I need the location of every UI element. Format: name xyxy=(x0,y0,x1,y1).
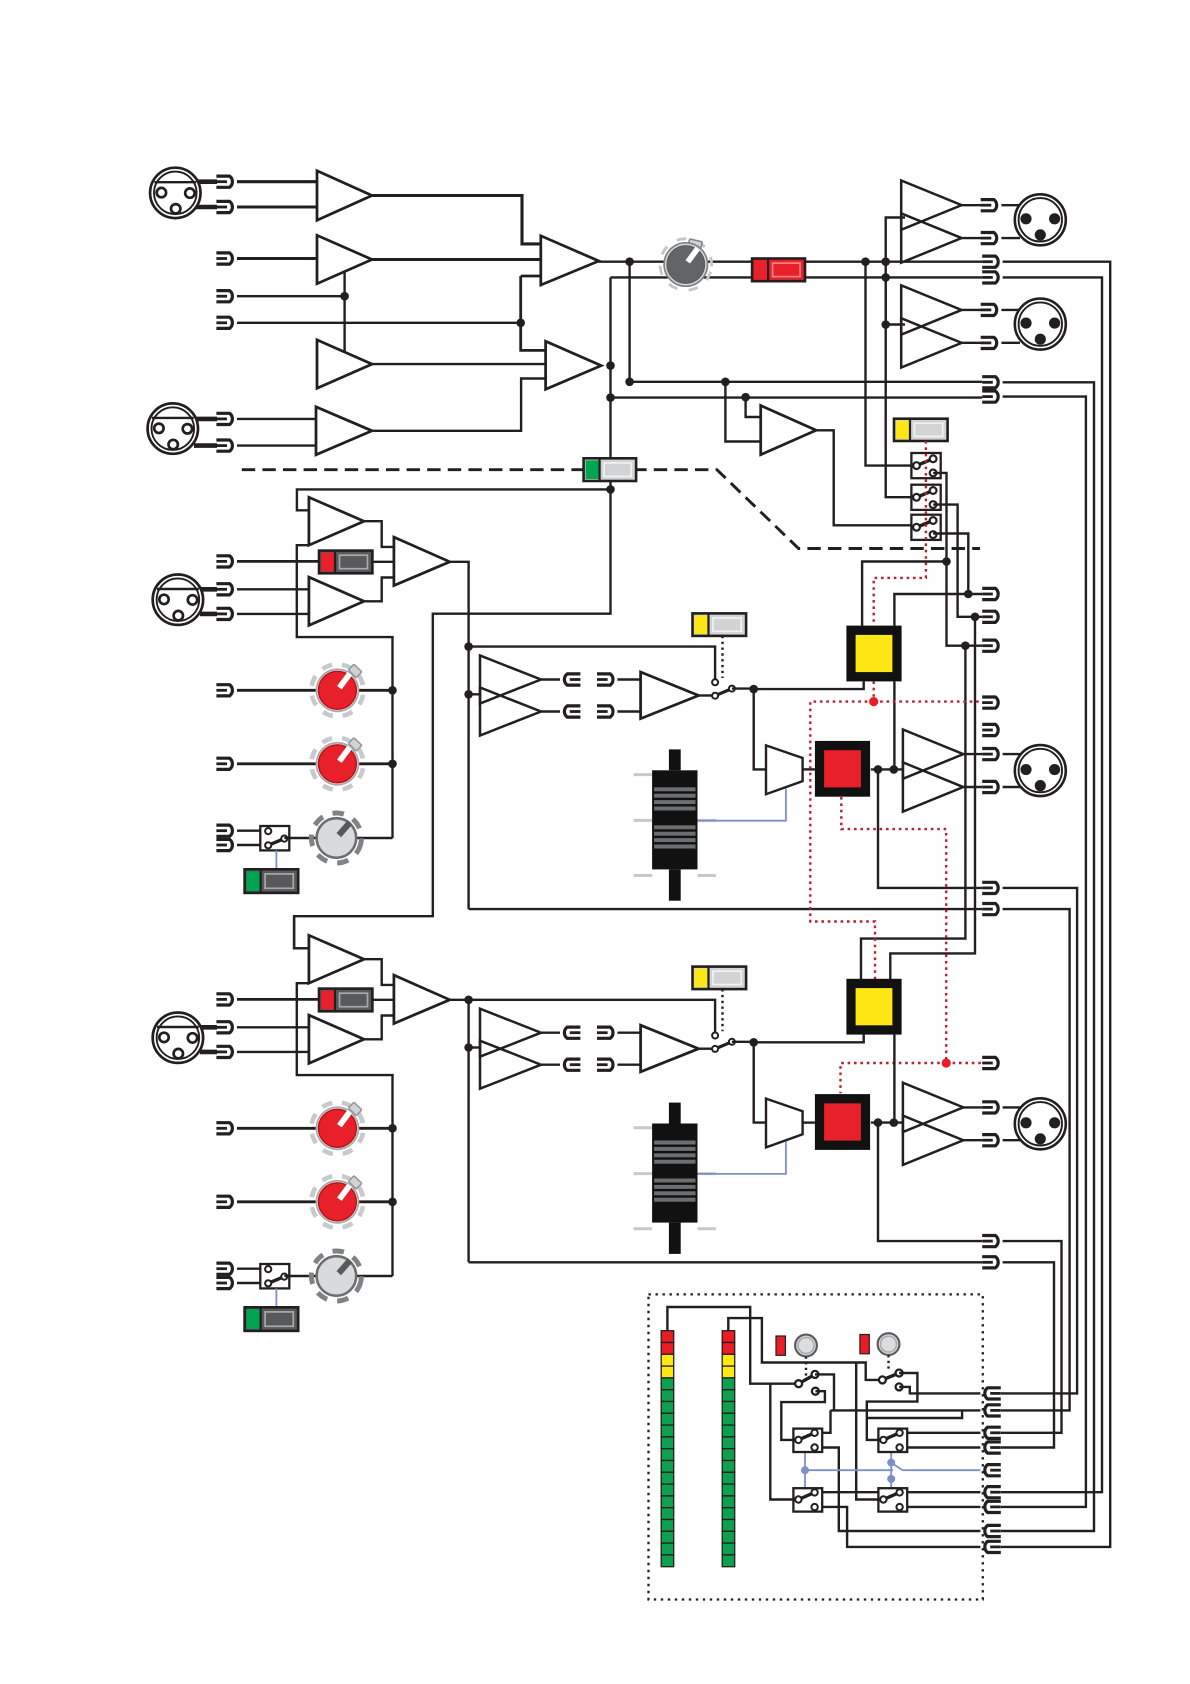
wire: sel B lower link xyxy=(899,1387,980,1394)
switch S12 xyxy=(793,1488,822,1511)
connector J12 main out L XLR (XLR male) xyxy=(1015,194,1066,245)
fader F1 channel fader xyxy=(634,749,716,900)
wire: master bus B xyxy=(611,276,983,278)
wire: pair2 to jacks xyxy=(962,310,981,343)
button S51 monitor assign xyxy=(846,626,901,682)
wire: main L to selector xyxy=(866,262,912,466)
op-amp pair U7 (balanced driver) xyxy=(901,181,961,263)
switch S3 monitor mode switch xyxy=(894,419,948,441)
connector jack J7 main out R jack xyxy=(982,272,998,283)
wire: sel A lower link xyxy=(781,1391,825,1440)
wire: jack to XLR pin2 xyxy=(1001,237,1020,239)
wire: ch2 head amp b out xyxy=(364,1016,394,1040)
op-amp U5 mix amp A xyxy=(541,236,599,285)
switch S6 select mono (selector) xyxy=(911,515,940,540)
wire: ch2 mic cold xyxy=(237,1051,309,1053)
potentiometer R22 level 2 xyxy=(307,1172,367,1232)
wire: ch1 return bot xyxy=(617,710,640,712)
connector jack J6 main out L jack xyxy=(982,256,998,267)
node n2 xyxy=(516,319,525,328)
node n2i4 xyxy=(874,1118,883,1127)
wire: ch1 sel in 2 xyxy=(237,844,268,846)
connector jack J82 send out jack xyxy=(982,1257,998,1268)
wire: ch2 send bot xyxy=(541,1063,560,1065)
wire: sel A upper link xyxy=(815,1374,834,1410)
node n10 xyxy=(625,378,634,387)
node n5 xyxy=(881,257,890,266)
potentiometer R11 level 1 xyxy=(307,660,367,720)
wire: meter feed A xyxy=(667,1307,795,1384)
wire: mono tap A xyxy=(725,382,760,442)
node n2k2 xyxy=(388,1198,397,1207)
wire: ch2 vca to mute xyxy=(803,1121,815,1123)
wire: ch1 fader vca link xyxy=(698,788,786,820)
wire: boxB lower out xyxy=(900,1446,981,1448)
wire: ch1 to vca xyxy=(754,689,766,769)
connector jack J1b xyxy=(216,201,232,212)
wire: ch2 head amp a out xyxy=(364,959,394,985)
wire: ch1 vca to mute xyxy=(803,768,815,770)
node blue b2 xyxy=(887,1459,895,1467)
wire: ch2 direct out xyxy=(878,1123,982,1242)
switch S41 (insert bypass) xyxy=(712,679,735,698)
op-amp U12b head amp - xyxy=(309,1015,364,1063)
wire: ch1 pair to jacks xyxy=(963,754,982,787)
wire: monitor bus down 1 xyxy=(861,646,965,981)
wire: ch1 direct trunk xyxy=(1001,888,1077,1394)
connector jack J31d xyxy=(216,839,232,850)
switch S12 pad switch xyxy=(319,989,372,1012)
connector jack J41a send jack 1 xyxy=(564,674,580,685)
node n15 xyxy=(961,641,970,650)
potentiometer R1 master level xyxy=(654,233,718,297)
connector jack J20 spare jack xyxy=(982,724,998,735)
wire: ch2 send out xyxy=(469,1261,983,1263)
node n7 xyxy=(606,361,615,370)
wire: input3 wire xyxy=(237,295,345,297)
connector jack J42c return jack 1 xyxy=(597,1027,613,1038)
wire: jack to XLR pin2 xyxy=(1001,342,1020,344)
node n2i3 xyxy=(749,1038,758,1047)
potentiometer R23 trim xyxy=(307,1246,366,1305)
wire: lamp link 1 xyxy=(805,1357,807,1378)
connector jack J22b xyxy=(216,1022,232,1033)
node n2i2 xyxy=(464,1043,473,1052)
wire: record bus A xyxy=(630,381,983,383)
wire: boxC upper row xyxy=(815,1491,981,1493)
node n13 xyxy=(881,320,890,329)
switch S31 phantom switch xyxy=(245,869,299,893)
wire: ch1 send out xyxy=(469,908,983,910)
connector jack J42b send jack 2 xyxy=(564,1059,580,1070)
wire: S5 out xyxy=(933,505,982,617)
switch S11 xyxy=(878,1429,907,1452)
wire: main R bus trunk to meter jack xyxy=(1001,277,1102,1492)
wire: ch1 post insert xyxy=(732,687,754,689)
connector jack J52a xyxy=(982,1102,998,1113)
wire: ch1 mic hot xyxy=(237,588,309,590)
node rn1 (link) xyxy=(869,697,878,706)
node n1 xyxy=(340,292,349,301)
wire: ch2 mic hot xyxy=(237,1026,309,1028)
node n1k2 xyxy=(388,760,397,769)
op-amp U41 return amp xyxy=(641,672,699,719)
connector jack J29 ctrl jack 2 xyxy=(982,1057,998,1068)
connector J62 monitor out XLR (XLR male) xyxy=(1015,1098,1066,1149)
wire: ch1 XLR stub hot xyxy=(200,587,217,592)
wire: ch1 return top xyxy=(617,678,640,680)
wire: ch1 preamp feed xyxy=(297,489,611,510)
wire: input4 wire xyxy=(237,322,521,324)
connector jack J19 ctrl jack 1 xyxy=(982,697,998,708)
connector J1 mic input A (XLR female) xyxy=(150,168,200,218)
wire: input1 hot to amp U1 xyxy=(237,180,317,183)
wire: U3 out to mix amp U6 xyxy=(372,363,546,365)
wire: ch1 send top xyxy=(541,678,560,680)
connector jack J11 xyxy=(981,233,997,244)
wire: U1 out to mix amp U5 xyxy=(372,196,541,244)
wire: ch1 bypass wire xyxy=(469,647,715,680)
wire: ch2 preamp feed xyxy=(294,916,309,948)
node n1i3 xyxy=(749,685,758,694)
wire: ch1 send trunk xyxy=(1001,909,1070,1410)
node n2i5 xyxy=(890,1118,899,1127)
wire: ch2 fader vca link xyxy=(698,1142,786,1174)
connector jack J47 xyxy=(985,1525,1001,1536)
connector jack J4 line input 4 xyxy=(216,317,232,328)
wire: ctrl link S61 xyxy=(721,636,723,678)
node n14 xyxy=(942,557,951,566)
op-amp U4 input amp 4 xyxy=(316,407,372,455)
node n1i4 xyxy=(874,765,883,774)
connector jack J31b xyxy=(216,758,232,769)
op-amp U11a head amp + xyxy=(309,497,364,545)
LED meter M1 left meter xyxy=(661,1331,674,1567)
connector jack J41b send jack 2 xyxy=(564,706,580,717)
wire: ch1 jacks to XLR xyxy=(1003,754,1021,787)
wire: line out R trunk to meter jack xyxy=(1001,397,1086,1507)
wire: ch2 sel in 2 xyxy=(237,1282,268,1284)
wire: sel jog link xyxy=(867,1410,962,1418)
wire: jack to XLR pin1 xyxy=(1001,309,1020,311)
wire: XLR2 stub hot xyxy=(194,417,217,422)
connector jack J5a xyxy=(216,413,232,424)
connector jack J17 monitor jack 2 xyxy=(982,611,998,622)
op-amp pair U62 monitor output pair (balanced driver) xyxy=(903,1083,963,1165)
connector jack J8 rec out L jack xyxy=(982,377,998,388)
wire: jack to XLR pin1 xyxy=(1001,204,1020,206)
wire: meter feed B xyxy=(728,1318,879,1380)
wire: mute ctrl net 1 xyxy=(841,797,983,1093)
wire: U2 sense link xyxy=(343,272,345,352)
wire: ch2 post insert xyxy=(732,1041,754,1043)
wire: ch1 mon assign out xyxy=(893,681,895,769)
wire: ch1 insert in xyxy=(469,693,480,695)
node blue b1 xyxy=(801,1466,809,1474)
connector jack J32c xyxy=(216,1263,232,1274)
connector jack J48 xyxy=(985,1541,1001,1552)
wire: ch2 mon assign out xyxy=(893,1035,895,1123)
wire: U9 out to selector xyxy=(816,430,911,525)
wire: ch1 send bot xyxy=(541,710,560,712)
connector jack J32a xyxy=(216,1123,232,1134)
wire: ch1 XLR stub cold xyxy=(200,612,217,617)
wire: boxD lower out xyxy=(900,1506,981,1508)
wire: phones bus xyxy=(805,1463,980,1471)
connector jack J40 meter jack 1 xyxy=(985,1388,1001,1399)
op-amp pair U61 monitor output pair (balanced driver) xyxy=(903,730,963,812)
vca amp U52 vca xyxy=(766,1099,803,1148)
node n1i2 xyxy=(464,690,473,699)
switch S9 meter select B xyxy=(879,1370,903,1391)
connector jack J1a xyxy=(216,176,232,187)
switch S4 select main L (selector) xyxy=(911,453,940,478)
connector jack J9 rec out R jack xyxy=(982,391,998,402)
connector J5 mic input B (XLR female) xyxy=(148,403,198,453)
wire: sel B upper link xyxy=(867,1373,918,1440)
switch S5 select main R (selector) xyxy=(911,485,940,510)
wire: boxD pole feed xyxy=(856,1363,883,1500)
connector jack J31c xyxy=(216,825,232,836)
node n11 xyxy=(721,378,730,387)
connector jack J44 phones jack xyxy=(985,1465,1001,1476)
wire: ch2 pair to jacks xyxy=(963,1107,982,1140)
wire: ch1 phantom link xyxy=(275,850,277,869)
indicator LED D1 xyxy=(776,1336,785,1355)
wire: ch2 line in wire xyxy=(237,998,320,1001)
wire: monitor feed to ch1 yellow button xyxy=(862,562,946,626)
wire: ch1 direct out xyxy=(878,769,982,888)
wire: record bus B xyxy=(611,396,983,398)
wire: ch1 insert bus xyxy=(450,562,469,909)
connector jack J41 xyxy=(985,1405,1001,1416)
connector jack J71 direct out jack xyxy=(982,882,998,893)
connector jack J32d xyxy=(216,1277,232,1288)
op-amp U11b head amp - xyxy=(309,577,364,625)
wire: ch2 return top xyxy=(617,1031,640,1033)
connector jack J21b xyxy=(216,584,232,595)
connector jack J5b xyxy=(216,440,232,451)
connector jack J41d return jack 2 xyxy=(597,706,613,717)
node n4 xyxy=(861,257,870,266)
wire: boxC pole feed xyxy=(770,1384,798,1500)
wire: monitor feed 2 to ch1 yellow button xyxy=(894,594,968,626)
wire: ch1 post mute xyxy=(871,768,903,770)
button S71 mute xyxy=(815,741,870,797)
switch S1 master switch xyxy=(752,259,805,282)
wire: ch2 XLR stub hot xyxy=(200,1025,217,1030)
connector jack J21a line in xyxy=(216,556,232,567)
wire: input5 hot to amp U4 xyxy=(237,418,316,420)
wire: ch2 bypass wire xyxy=(469,1000,715,1033)
connector jack J2 line input 2 xyxy=(216,253,232,264)
wire: ch2 to mon assign xyxy=(754,1035,864,1043)
wire: ch1 line in wire xyxy=(237,560,320,563)
op-amp U2 input amp 2 xyxy=(317,235,372,283)
fader F2 channel fader xyxy=(634,1103,716,1254)
switch S8 meter select A xyxy=(795,1371,819,1395)
wire: aux ctrl net 1 xyxy=(810,681,982,979)
switch S61 insert mode switch xyxy=(693,613,747,636)
wire: ch2 return amp to switch xyxy=(699,1047,712,1049)
connector jack J51b xyxy=(982,781,998,792)
connector jack J21c xyxy=(216,608,232,619)
node n12 xyxy=(741,393,750,402)
connector jack J3 line input 3 xyxy=(216,291,232,302)
node n2i1 xyxy=(464,996,473,1005)
wire: ch2 gain loop xyxy=(297,983,393,1276)
connector jack J14 xyxy=(981,337,997,348)
wire: ch2 sel in 1 xyxy=(237,1267,268,1269)
node n9 xyxy=(606,485,615,494)
wire: ctrl link S62 xyxy=(721,989,723,1031)
wire: ch1 mic cold xyxy=(237,613,309,615)
op-amp U12a head amp + xyxy=(309,935,364,983)
op-amp pair U8 (balanced driver) xyxy=(901,285,961,367)
wire: console split dashed line xyxy=(242,470,980,549)
wire: ch1 return amp to switch xyxy=(699,694,712,696)
op-amp U6 mix amp B xyxy=(546,341,602,389)
op-amp U11c preamp sum xyxy=(394,537,450,585)
wire: input5 cold to amp U4 xyxy=(237,444,316,446)
wire: ch2 insert bus xyxy=(450,1000,469,1263)
button S52 monitor assign xyxy=(846,979,901,1035)
wire: ch2 direct trunk xyxy=(1001,1241,1062,1433)
node n1i5 xyxy=(890,765,899,774)
connector jack J81 send out jack xyxy=(982,904,998,915)
wire: master bus A xyxy=(599,261,982,263)
node blue b3 xyxy=(887,1475,895,1483)
wire: XLR1 stub cold xyxy=(196,205,217,210)
switch S62 insert mode switch xyxy=(693,967,747,990)
node n6 xyxy=(881,273,890,282)
switch S21 source select xyxy=(260,826,289,850)
wire: ch1 trim wire xyxy=(284,837,392,839)
node rn2 (link) xyxy=(942,1058,951,1067)
connector jack J16 monitor jack 1 xyxy=(982,588,998,599)
wire: ch2 insert in xyxy=(469,1046,480,1048)
wire: ch2 return bot xyxy=(617,1063,640,1065)
wire: ch1 gain loop xyxy=(297,545,393,838)
connector jack J43 xyxy=(985,1442,1001,1453)
switch S13 xyxy=(878,1488,907,1511)
wire: lamp link 2 xyxy=(887,1355,889,1369)
wire: line out L trunk to meter jack xyxy=(1001,382,1094,1531)
connector jack J42a send jack 1 xyxy=(564,1027,580,1038)
node n8 xyxy=(606,393,615,402)
wire: XLR2 stub cold xyxy=(194,443,217,448)
wire: ch2 send trunk xyxy=(1001,1262,1054,1447)
wire: sel link to jack 2 xyxy=(831,1409,981,1411)
wire: ch2 to vca xyxy=(754,1042,766,1122)
wire: U4 out to mix amp U6 xyxy=(372,379,546,431)
switch S32 phantom switch xyxy=(245,1307,299,1331)
lamp L2 xyxy=(878,1333,900,1355)
op-amp U1 input amp 1 xyxy=(317,171,372,220)
wire: ch2 XLR stub cold xyxy=(200,1050,217,1055)
node n17 xyxy=(964,590,973,599)
potentiometer R13 trim xyxy=(307,808,366,867)
wire: ch2 knob2 wire xyxy=(237,1200,393,1203)
wire: input1 cold to amp U1 xyxy=(237,205,317,208)
wire: mono tap B xyxy=(746,397,761,417)
wire: sel link boxA upper xyxy=(822,1410,830,1432)
connector J22 mic in (XLR female) xyxy=(153,1012,203,1062)
wire: ch2 trim wire xyxy=(284,1275,392,1277)
connector jack J42 xyxy=(985,1427,1001,1438)
connector jack J45 xyxy=(985,1487,1001,1498)
connector J61 monitor out XLR (XLR male) xyxy=(1015,745,1066,796)
potentiometer R12 level 2 xyxy=(307,734,367,794)
wire: pair1 to jacks xyxy=(962,205,981,238)
wire: U5 out vertical xyxy=(628,262,630,382)
button S72 mute xyxy=(815,1094,870,1150)
connector jack J41c return jack 1 xyxy=(597,674,613,685)
node n3 xyxy=(625,257,634,266)
switch S11 pad switch xyxy=(319,551,372,574)
node n16 xyxy=(971,613,980,622)
wire: ch1 sel in 1 xyxy=(237,830,268,832)
indicator LED D2 xyxy=(860,1335,869,1354)
wire: ch1 head amp a out xyxy=(364,521,394,547)
wire: U6 out vertical xyxy=(294,277,610,948)
potentiometer R21 level 1 xyxy=(307,1098,367,1158)
op-amp U9 mono sum amp xyxy=(761,406,816,455)
meter section dotted border xyxy=(649,1294,983,1599)
op-amp pair U31 (insert send drivers) xyxy=(480,656,541,736)
op-amp U42 return amp xyxy=(641,1025,699,1072)
wire: mix bus link xyxy=(521,276,546,350)
switch S2 link switch xyxy=(584,458,637,481)
wire: ch2 send top xyxy=(541,1031,560,1033)
wire: ch2 jacks to XLR xyxy=(1003,1107,1021,1140)
wire: main R to selector xyxy=(886,277,912,497)
connector jack J42d return jack 2 xyxy=(597,1059,613,1070)
connector jack J10 xyxy=(981,200,997,211)
connector jack J46 xyxy=(985,1501,1001,1512)
connector jack J13 xyxy=(981,304,997,315)
wire: XLR1 stub hot xyxy=(196,179,217,184)
connector jack J32b xyxy=(216,1196,232,1207)
wire: boxA lower out xyxy=(815,1448,981,1532)
wire: phones link A xyxy=(804,1452,806,1488)
op-amp pair U32 (insert send drivers) xyxy=(480,1009,541,1089)
connector jack J51a xyxy=(982,749,998,760)
switch S42 (insert bypass) xyxy=(712,1033,735,1052)
wire: boxC lower out xyxy=(815,1507,981,1547)
node n2k1 xyxy=(388,1124,397,1133)
wire: phones link B xyxy=(890,1452,892,1488)
lamp L1 xyxy=(795,1335,817,1357)
node n1i1 xyxy=(464,642,473,651)
node n1k1 xyxy=(388,686,397,695)
wire: ch1 head amp b out xyxy=(364,578,394,602)
connector jack J72 direct out jack xyxy=(982,1236,998,1247)
wire: ch2 phantom link xyxy=(275,1288,277,1307)
connector J21 mic in (XLR female) xyxy=(153,575,203,625)
wire: ch2 knob1 wire xyxy=(237,1127,393,1130)
LED meter M2 right meter xyxy=(722,1331,735,1567)
wire: ch1 knob2 wire xyxy=(237,762,393,765)
connector jack J18 monitor jack 3 xyxy=(982,640,998,651)
vca amp U51 vca xyxy=(766,745,803,794)
wire: control link S3 to bank xyxy=(874,441,926,626)
wire: ch1 knob1 wire xyxy=(237,689,393,692)
wire: U2 out to mix amp U5 xyxy=(372,258,541,261)
connector jack J22a line in xyxy=(216,994,232,1005)
switch S10 xyxy=(793,1429,822,1452)
wire: S6 out xyxy=(933,534,982,595)
